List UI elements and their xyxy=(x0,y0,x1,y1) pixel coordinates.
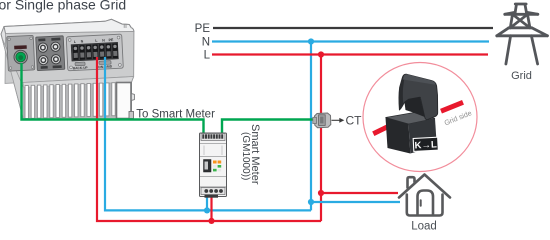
svg-text:L: L xyxy=(204,50,211,62)
detail clamp base front face xyxy=(386,118,411,154)
inverter recessed panel xyxy=(5,32,134,84)
detail red cable left xyxy=(373,124,392,134)
DC connector 3 xyxy=(39,55,49,65)
node L top junction xyxy=(318,51,324,57)
wire RS485 green: inverter to meter xyxy=(22,63,204,134)
wire L red: inverter drop xyxy=(97,57,321,221)
CT clamp on wire xyxy=(313,113,331,128)
K to L label box xyxy=(413,137,438,151)
COM panel label xyxy=(14,45,27,49)
DC connector 4 xyxy=(51,54,61,64)
svg-text:CT: CT xyxy=(346,114,363,128)
node N top junction xyxy=(308,38,314,44)
meter bottom wire plug xyxy=(205,195,219,198)
wire L red: vertical from grid line to bottom xyxy=(320,55,322,222)
AC terminal block xyxy=(71,42,118,61)
DC connector panel xyxy=(36,36,65,71)
wire N blue: branch to load xyxy=(311,201,400,203)
DC connector 1 xyxy=(38,43,48,53)
CT arrow xyxy=(332,118,345,123)
node N meter junction xyxy=(204,207,210,213)
wall bracket tab xyxy=(117,83,132,119)
COM panel xyxy=(7,35,35,71)
inverter top strip xyxy=(4,19,134,33)
terminal labels L N / L N PE xyxy=(74,38,114,44)
svg-text:Load: Load xyxy=(411,221,437,232)
detail red cable right xyxy=(441,102,463,111)
wire L red top xyxy=(212,53,488,55)
BACK-UP plug xyxy=(75,62,85,66)
svg-text:(GM1000)): (GM1000)) xyxy=(240,132,251,180)
wire N blue: meter drop xyxy=(206,194,208,210)
inverter body outline xyxy=(1,19,135,119)
detail clamp base right face xyxy=(409,119,437,154)
meter LCD xyxy=(204,160,212,173)
svg-text:K→L: K→L xyxy=(414,139,437,151)
meter indicator squares xyxy=(213,161,217,164)
bracket foot xyxy=(129,112,134,119)
inverter left side cap xyxy=(2,38,24,120)
svg-text:Grid: Grid xyxy=(511,70,532,82)
wire CT green: meter to CT xyxy=(222,120,313,134)
svg-text:or Single phase Grid: or Single phase Grid xyxy=(0,0,126,13)
inverter tab notch xyxy=(124,24,126,28)
node L load junction xyxy=(318,190,324,196)
svg-text:PE: PE xyxy=(108,38,114,42)
meter bottom terminals xyxy=(204,189,208,193)
detail clamp jaw xyxy=(399,74,438,119)
heatsink fins xyxy=(24,83,117,120)
wire N blue: vertical from grid line to bottom xyxy=(310,42,312,211)
smart meter U1 (GM1000) xyxy=(200,133,227,198)
load house icon xyxy=(399,175,450,216)
svg-text:PE: PE xyxy=(195,23,211,35)
svg-text:To Smart Meter: To Smart Meter xyxy=(136,108,215,120)
DC connector 2 xyxy=(51,42,61,52)
COM connector (RS485 port) xyxy=(14,50,27,63)
wire N blue top xyxy=(212,40,489,42)
node N load junction xyxy=(308,199,314,205)
wire L red: branch to load xyxy=(321,192,398,194)
detail clamp jaw left facet xyxy=(399,74,408,110)
wire L red: meter drop xyxy=(210,194,212,221)
svg-text:BACK-UP: BACK-UP xyxy=(73,66,89,71)
grid pylon icon xyxy=(497,4,548,64)
AC terminal panel xyxy=(66,34,123,71)
svg-text:N: N xyxy=(202,37,210,49)
CT detail circle xyxy=(363,63,477,172)
ON-GRID plug xyxy=(99,61,111,65)
wire N blue: inverter drop xyxy=(105,57,311,210)
node L meter junction xyxy=(208,218,214,224)
detail clamp jaw gap shadow xyxy=(405,97,425,117)
wire PE black top xyxy=(213,27,493,29)
detail clamp jaw top sheen xyxy=(403,74,436,84)
detail clamp base top face xyxy=(386,113,436,125)
inverter bottom band xyxy=(23,77,134,88)
